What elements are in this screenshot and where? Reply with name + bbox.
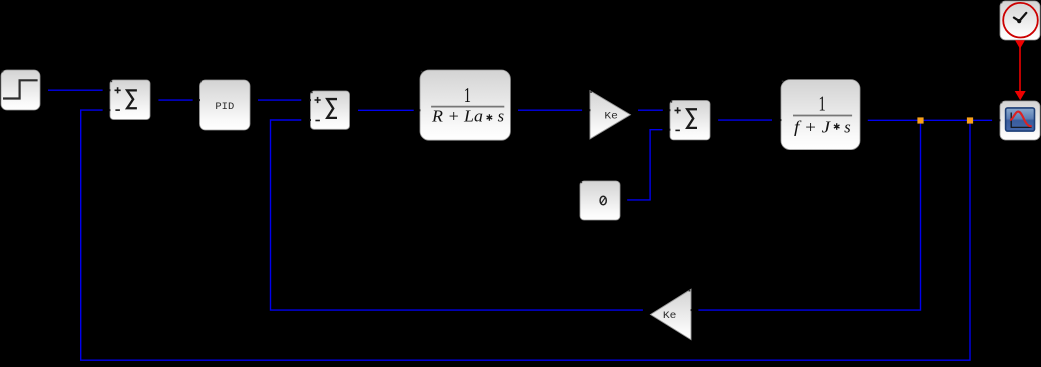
link split point node 1 bbox=[917, 117, 923, 123]
wire: split point 1 down to feedback gain input bbox=[698, 121, 920, 310]
svg-text:Ke: Ke bbox=[604, 112, 618, 123]
wire: sum2 output to TF1 input bbox=[358, 109, 414, 111]
gain block Ke (feedback) bbox=[651, 289, 693, 340]
wire: sum3 output to TF2 input bbox=[718, 119, 772, 121]
svg-text:1: 1 bbox=[819, 91, 826, 115]
PID controller block bbox=[198, 80, 250, 130]
wire: sum1 output to PID input bbox=[158, 99, 192, 101]
wire: TF1 output to gain Ke input bbox=[518, 109, 582, 111]
svg-text:PID: PID bbox=[215, 101, 234, 113]
wire: step output to sum1 plus input bbox=[48, 89, 103, 91]
link split point node 2 bbox=[967, 117, 973, 123]
wire: split point 2 outer loop to sum1 minus input bbox=[81, 110, 970, 360]
clock block SampleCLK bbox=[1000, 1, 1040, 40]
transfer function block 1/(R+La*s) bbox=[419, 70, 511, 140]
summation block SUM2 bbox=[309, 91, 349, 129]
step input block STEP_FUNCTION bbox=[1, 70, 40, 110]
constant block 0 bbox=[580, 181, 620, 220]
transfer function block 1/(f+J*s) bbox=[780, 80, 860, 150]
svg-text:Ke: Ke bbox=[663, 311, 677, 322]
wire: TF2 output to scope input bbox=[868, 119, 992, 121]
wire: PID output to sum2 plus input bbox=[258, 99, 301, 101]
svg-text:s: s bbox=[844, 117, 850, 136]
wire: gain Ke output to sum3 plus input bbox=[638, 109, 663, 111]
svg-text:f + J: f + J bbox=[794, 117, 831, 136]
svg-text:s: s bbox=[498, 106, 504, 125]
scope block CSCOPE bbox=[999, 101, 1040, 140]
gain block Ke (forward) bbox=[589, 91, 631, 139]
svg-text:R + La: R + La bbox=[431, 106, 483, 125]
summation block SUM1 bbox=[109, 80, 150, 120]
summation block SUM3 bbox=[669, 101, 710, 140]
event link: clock to scope (red) bbox=[1015, 40, 1026, 100]
svg-text:1: 1 bbox=[464, 83, 471, 107]
wire: feedback gain output to sum2 minus input bbox=[271, 120, 643, 310]
wire: constant 0 output to sum3 minus input bbox=[627, 130, 662, 200]
